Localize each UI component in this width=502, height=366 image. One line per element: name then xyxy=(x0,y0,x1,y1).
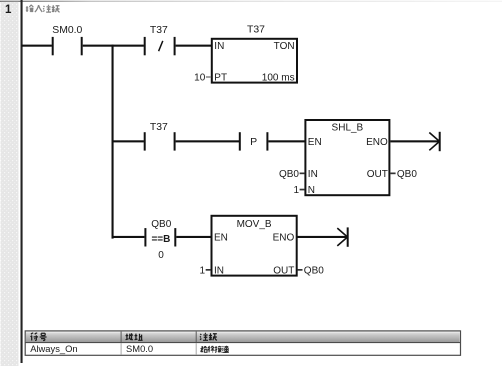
svg-text:Always_On: Always_On xyxy=(30,343,77,354)
PT input tick xyxy=(206,76,211,78)
IN input tick xyxy=(206,269,211,271)
contact P positive edge xyxy=(239,132,269,150)
header 地址 xyxy=(126,333,143,340)
svg-text:1: 1 xyxy=(5,4,12,16)
wire vertical branch xyxy=(112,45,114,239)
svg-text:QB0: QB0 xyxy=(151,219,171,230)
svg-text:N: N xyxy=(308,185,315,196)
data 始终接通 xyxy=(200,346,228,353)
svg-text:QB0: QB0 xyxy=(397,169,417,180)
box MOV_B xyxy=(200,216,325,276)
svg-text:1: 1 xyxy=(200,265,206,276)
svg-text:SM0.0: SM0.0 xyxy=(52,25,82,36)
box SHL_B xyxy=(279,120,417,196)
svg-text:QB0: QB0 xyxy=(304,265,324,276)
svg-text:1: 1 xyxy=(293,185,299,196)
wire P contact to SHL_B EN xyxy=(268,140,305,142)
svg-text:P: P xyxy=(250,136,257,148)
arrow open rung terminator xyxy=(337,227,348,246)
wire rail to SM0.0 contact xyxy=(22,45,52,47)
svg-text:IN: IN xyxy=(308,169,318,180)
svg-text:OUT: OUT xyxy=(273,265,294,276)
timer box T37 TON xyxy=(194,25,297,84)
svg-text:IN: IN xyxy=(214,265,224,276)
data column separator 1 xyxy=(121,343,122,355)
contact T37 xyxy=(144,132,176,150)
contact compare ==B xyxy=(144,228,176,246)
svg-text:MOV_B: MOV_B xyxy=(237,219,272,230)
svg-text:EN: EN xyxy=(308,137,322,148)
left power rail xyxy=(21,0,23,363)
table header background xyxy=(26,332,460,342)
svg-text:QB0: QB0 xyxy=(279,169,299,180)
svg-text:ENO: ENO xyxy=(273,232,295,243)
wire SM0.0 to T37 NC contact xyxy=(83,45,144,47)
svg-text:IN: IN xyxy=(214,41,224,52)
OUT output tick xyxy=(297,269,302,271)
header bottom separator xyxy=(25,342,460,343)
wire ENO to arrow xyxy=(390,140,438,142)
N input tick xyxy=(300,189,305,191)
IN input tick xyxy=(300,173,305,175)
data column separator 2 xyxy=(196,343,197,355)
network margin dotted column xyxy=(1,2,19,366)
table outer border xyxy=(25,331,460,355)
svg-text:100 ms: 100 ms xyxy=(262,73,295,84)
wire ==B to MOV_B EN xyxy=(176,236,211,238)
svg-text:T37: T37 xyxy=(150,25,168,36)
svg-text:T37: T37 xyxy=(247,25,265,36)
svg-text:OUT: OUT xyxy=(367,169,388,180)
contact SM0.0 xyxy=(52,37,83,55)
network comment 输入注释 (drawn glyphs) xyxy=(26,5,60,12)
svg-text:==B: ==B xyxy=(151,234,170,245)
svg-text:TON: TON xyxy=(274,41,295,52)
header column separator 2 xyxy=(196,332,197,342)
wire T37 contact to timer box IN xyxy=(176,45,212,47)
wire T37 to P contact xyxy=(176,140,239,142)
svg-text:EN: EN xyxy=(214,232,228,243)
wire branch to T37 contact xyxy=(112,140,144,142)
arrow open rung terminator xyxy=(429,132,440,151)
svg-text:T37: T37 xyxy=(150,122,168,133)
svg-text:0: 0 xyxy=(158,250,164,261)
svg-text:SM0.0: SM0.0 xyxy=(126,343,153,354)
svg-text:PT: PT xyxy=(214,73,227,84)
wire branch to ==B contact xyxy=(112,236,145,238)
OUT output tick xyxy=(390,173,395,175)
header 符号 xyxy=(31,333,47,340)
top border line xyxy=(0,1,502,2)
wire ENO to arrow xyxy=(297,236,346,238)
header column separator 1 xyxy=(121,332,122,342)
svg-text:SHL_B: SHL_B xyxy=(332,123,364,134)
header 注释 xyxy=(200,333,217,340)
svg-text:10: 10 xyxy=(194,73,206,84)
contact T37 normally-closed xyxy=(144,37,176,55)
svg-text:ENO: ENO xyxy=(366,137,388,148)
